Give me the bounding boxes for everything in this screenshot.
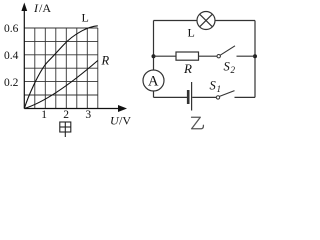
battery: long thin plate (positive) xyxy=(191,82,193,111)
wire: middle branch, junction to resistor xyxy=(154,55,177,57)
caption 乙 (drawn) xyxy=(192,117,204,129)
wire: left side vertical (top corner to ammeter) xyxy=(153,21,155,71)
wire: bottom, left corner to battery xyxy=(154,96,188,98)
wire: top, from lamp to right corner xyxy=(215,20,255,22)
svg-text:S: S xyxy=(224,60,231,74)
x-axis xyxy=(24,108,121,110)
y-axis arrow head xyxy=(21,3,27,12)
svg-text:R: R xyxy=(101,54,110,68)
wire: left side vertical (ammeter to bottom corner) xyxy=(153,91,155,97)
switch S1 pivot xyxy=(216,96,219,99)
curve L (lamp I-V) xyxy=(24,26,98,109)
wire: battery to switch S1 xyxy=(192,96,216,98)
svg-text:2: 2 xyxy=(231,65,236,75)
switch S1 lever (open) xyxy=(220,91,235,97)
caption 甲 (drawn) xyxy=(60,122,71,137)
svg-text:0.2: 0.2 xyxy=(4,77,19,89)
wire: right side vertical xyxy=(254,21,256,98)
svg-text:/V: /V xyxy=(119,114,131,128)
svg-text:0.6: 0.6 xyxy=(4,23,19,35)
wire: resistor to switch S2 xyxy=(199,55,218,57)
line R (resistor I-V) xyxy=(24,61,98,109)
svg-text:L: L xyxy=(188,26,195,40)
x-axis arrow head xyxy=(118,105,127,112)
svg-text:L: L xyxy=(82,11,89,25)
wire: switch S1 to right corner xyxy=(235,96,256,98)
svg-text:2: 2 xyxy=(63,109,69,121)
switch S2 lever (open) xyxy=(220,46,235,55)
node: junction dot left (middle branch) xyxy=(152,54,156,58)
ammeter A xyxy=(143,70,164,91)
lamp L (circle with X) xyxy=(197,12,215,30)
svg-text:/A: /A xyxy=(39,1,51,15)
svg-text:3: 3 xyxy=(85,109,91,121)
svg-text:0.4: 0.4 xyxy=(4,50,19,62)
svg-text:1: 1 xyxy=(217,84,222,94)
resistor R (box) xyxy=(176,52,199,60)
grid vertical lines xyxy=(35,28,98,109)
y-axis xyxy=(23,8,25,109)
node: junction dot right (middle branch) xyxy=(253,54,257,58)
wire: top, from left corner to lamp xyxy=(154,20,198,22)
svg-text:1: 1 xyxy=(41,109,47,121)
battery: short thick plate (negative) xyxy=(187,90,190,104)
switch S2 pivot xyxy=(217,55,220,58)
svg-text:A: A xyxy=(148,74,159,90)
svg-text:S: S xyxy=(210,79,217,93)
svg-text:R: R xyxy=(183,61,192,76)
grid horizontal lines xyxy=(24,28,98,95)
wire: switch S2 to right junction xyxy=(237,55,256,57)
